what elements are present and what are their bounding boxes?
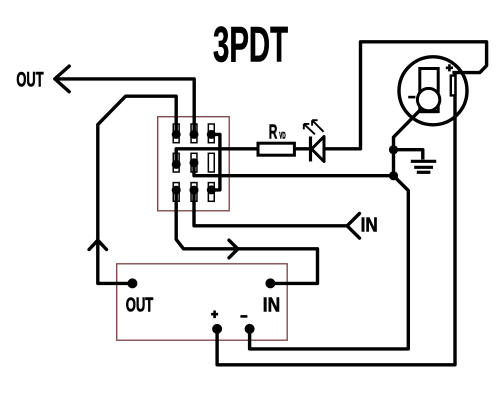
OUT arrowhead bbox=[55, 66, 69, 92]
svg-text:3PDT: 3PDT bbox=[213, 17, 288, 73]
solder dot lug8 bbox=[190, 186, 199, 195]
DC jack minus label bbox=[408, 96, 415, 99]
wire: resistor to LED bbox=[294, 147, 310, 150]
lug 2 (top-middle) bbox=[191, 124, 197, 143]
DC jack J1 outer circle bbox=[399, 57, 467, 125]
wire: bottom-middle lug to IN arrow bbox=[194, 190, 347, 226]
DC jack + lug bbox=[451, 76, 456, 96]
wire: minus node down to board - pad bbox=[250, 176, 409, 349]
board pad dot IN bbox=[265, 278, 275, 288]
wire: DC jack - terminal diagonal to ground node bbox=[394, 101, 430, 150]
DC jack inner circle (pin) bbox=[417, 88, 439, 110]
resistor Rvd bbox=[258, 143, 294, 155]
LED light arrow 1 bbox=[304, 124, 315, 134]
lug 9 (bottom-right) bbox=[208, 183, 214, 202]
lug 5 (middle-middle) bbox=[191, 153, 197, 172]
junction dot: minus node bbox=[389, 171, 398, 180]
board pad dot - bbox=[245, 324, 255, 334]
svg-text:R: R bbox=[269, 121, 278, 144]
wire: DC jack + lug down to board + pad bbox=[217, 73, 455, 365]
ground symbol stem bbox=[394, 150, 423, 160]
junction dot: ground node bbox=[389, 145, 398, 154]
board pad dot + bbox=[212, 324, 222, 334]
wire: bottom-left lug to board IN pad bbox=[176, 190, 317, 283]
solder dot lug1 bbox=[172, 130, 181, 139]
lug 6 (middle-right, unused) bbox=[208, 153, 214, 172]
flow arrow up on left wire bbox=[89, 240, 106, 249]
solder dot lug7 bbox=[172, 186, 181, 195]
board pad dot OUT bbox=[127, 278, 137, 288]
lug 7 (bottom-left) bbox=[173, 183, 179, 202]
board label plus bbox=[211, 311, 218, 319]
wire: top-right lug to bottom-right lug bbox=[211, 134, 220, 190]
solder dot lug5 bbox=[190, 158, 199, 167]
svg-text:IN: IN bbox=[263, 295, 280, 317]
DC jack barrel rectangle bbox=[420, 69, 438, 112]
DC jack plus label bbox=[446, 64, 453, 71]
lug 3 (top-right) bbox=[208, 124, 214, 143]
svg-text:OUT: OUT bbox=[126, 295, 154, 317]
LED D1 cathode bar bbox=[309, 137, 312, 162]
wire: middle-left lug to resistor bbox=[176, 149, 258, 165]
LED D1 triangle bbox=[312, 137, 324, 162]
switch S1 body (3PDT box) bbox=[158, 117, 230, 211]
lug 1 (top-left) bbox=[173, 124, 179, 143]
wire: LED anode up over the top to DC jack + bbox=[324, 42, 487, 149]
solder dot lug9 bbox=[207, 185, 216, 194]
solder dot lug4 bbox=[172, 160, 181, 169]
svg-text:OUT: OUT bbox=[16, 68, 43, 91]
svg-text:IN: IN bbox=[361, 214, 378, 237]
flow arrow right on wire bbox=[229, 240, 238, 258]
ground bar 3 bbox=[417, 171, 431, 174]
wire: middle-middle lug to minus node bbox=[194, 163, 394, 176]
svg-text:VD: VD bbox=[279, 131, 285, 141]
DC jack barrel bottom edge bbox=[420, 110, 438, 113]
wire: board OUT pad to top-left lug bbox=[98, 96, 176, 283]
ground bar 2 bbox=[414, 166, 433, 169]
board label minus bbox=[240, 315, 247, 318]
LED light arrow 2 bbox=[312, 120, 324, 132]
lug 8 (bottom-middle) bbox=[191, 183, 197, 202]
solder dot lug2 bbox=[190, 130, 199, 139]
lug 4 (middle-left) bbox=[173, 153, 179, 172]
ground bar 1 bbox=[411, 160, 436, 163]
IN arrowhead bbox=[347, 214, 359, 239]
solder dot lug3 bbox=[207, 130, 216, 139]
wire: OUT jack arrow to top-middle lug bbox=[55, 79, 194, 134]
wire: ground node junction link bbox=[392, 150, 395, 176]
effect board (bottom box) bbox=[117, 264, 288, 340]
